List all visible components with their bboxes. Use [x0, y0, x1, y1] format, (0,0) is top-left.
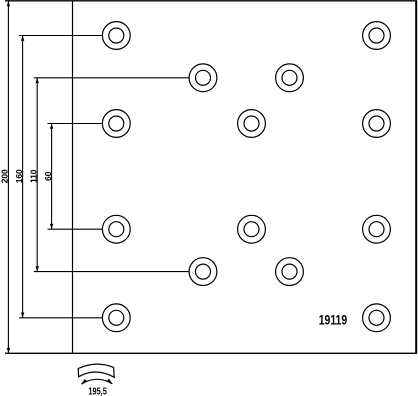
hole H10	[363, 215, 391, 243]
hole H2	[363, 22, 391, 50]
hole H13	[102, 304, 130, 332]
hole H7	[363, 110, 391, 138]
label 60	[43, 171, 53, 181]
svg-text:19119: 19119	[319, 313, 348, 329]
dimension line 200	[7, 1, 10, 353]
hole H4	[276, 64, 304, 92]
dimension line 110	[36, 78, 39, 272]
label 160	[14, 169, 24, 183]
label 200	[0, 169, 10, 183]
extension line row6	[19, 317, 102, 319]
svg-text:160: 160	[14, 169, 24, 183]
extension line row3	[48, 123, 103, 125]
part number 19119	[319, 313, 348, 329]
radius dimension arc	[81, 379, 113, 385]
plate bottom edge	[5, 352, 417, 354]
hole H12	[276, 258, 304, 286]
hole H14	[363, 304, 391, 332]
svg-text:60: 60	[43, 171, 53, 181]
svg-text:200: 200	[0, 169, 10, 183]
plate top edge	[5, 0, 417, 2]
label 110	[28, 169, 38, 183]
dimension line 160	[21, 36, 24, 318]
extension line row4	[48, 228, 103, 230]
hole H1	[102, 22, 130, 50]
hole H6	[238, 110, 266, 138]
lining cross-section band	[78, 364, 114, 377]
svg-text:195,5: 195,5	[88, 387, 107, 396]
hole H8	[102, 215, 130, 243]
hole H3	[189, 64, 217, 92]
label 195,5	[88, 387, 107, 396]
plate right edge	[415, 1, 417, 354]
hole H5	[102, 110, 130, 138]
extension line row2	[34, 77, 189, 79]
svg-text:110: 110	[28, 169, 38, 183]
dimension line 60	[50, 124, 53, 230]
extension line row5	[34, 271, 189, 273]
hole H11	[189, 258, 217, 286]
extension line row1	[19, 35, 102, 37]
hole H9	[238, 215, 266, 243]
plate left edge	[72, 1, 74, 354]
